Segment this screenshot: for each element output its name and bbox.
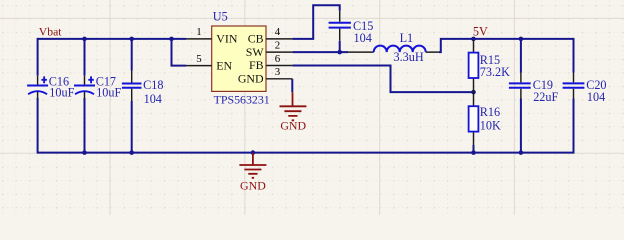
junction rail-GND <box>251 150 256 155</box>
junction Vbat-C18 <box>129 37 134 42</box>
svg-text:73.2K: 73.2K <box>480 65 510 79</box>
capacitor C15 <box>329 11 374 45</box>
svg-text:104: 104 <box>587 90 605 104</box>
svg-text:TPS563231: TPS563231 <box>214 93 270 107</box>
ground symbol under pin 3 <box>280 92 307 132</box>
svg-text:6: 6 <box>275 53 281 65</box>
wire CB to C15 top loop <box>292 5 339 39</box>
wire bottom GND rail <box>38 152 574 154</box>
capacitor C17 <box>74 75 121 100</box>
resistor R16 <box>469 92 501 145</box>
svg-text:10K: 10K <box>480 118 501 132</box>
wire EN branch <box>172 39 187 66</box>
svg-text:VIN: VIN <box>216 32 238 46</box>
wire C20 top drop <box>573 38 575 73</box>
svg-text:1: 1 <box>196 26 201 38</box>
svg-text:104: 104 <box>144 92 162 106</box>
wire FB net <box>292 66 473 93</box>
net label Vbat <box>39 25 62 38</box>
wire SW net <box>292 51 348 53</box>
svg-text:22uF: 22uF <box>533 90 558 104</box>
wire L1 to 5V rail <box>439 39 574 52</box>
junction rail-C19 <box>519 150 524 155</box>
junction 5V-R15 <box>471 37 476 42</box>
capacitor C16 <box>27 75 74 100</box>
svg-text:U5: U5 <box>213 10 228 24</box>
inductor L1 <box>348 31 439 64</box>
svg-text:GND: GND <box>238 72 264 86</box>
pin 4 CB <box>248 26 293 45</box>
svg-text:10uF: 10uF <box>96 86 121 100</box>
wire C17 top drop <box>84 39 86 76</box>
wire R16 bottom drop <box>473 145 475 153</box>
wire C20 bottom drop <box>573 99 575 154</box>
wire C19 top drop <box>520 39 522 73</box>
svg-text:104: 104 <box>354 31 372 45</box>
IC U5 TPS563231 <box>212 10 270 107</box>
svg-text:GND: GND <box>280 118 306 132</box>
junction 5V-C19 <box>519 37 524 42</box>
wire Vbat rail <box>38 38 186 40</box>
pin 5 EN <box>186 53 233 72</box>
junction Vbat-C17 <box>82 37 87 42</box>
junction SW-C15 <box>337 50 342 55</box>
svg-text:R16: R16 <box>480 105 500 119</box>
svg-text:EN: EN <box>216 58 232 72</box>
svg-text:2: 2 <box>275 39 280 51</box>
junction rail-R16 <box>471 150 476 155</box>
wire C16 bottom drop <box>37 98 39 154</box>
capacitor C20 <box>563 73 607 104</box>
pin 1 VIN <box>186 26 238 45</box>
svg-text:3.3uH: 3.3uH <box>394 50 424 64</box>
svg-text:GND: GND <box>240 179 266 193</box>
junction rail-C17 <box>82 150 87 155</box>
svg-text:5: 5 <box>196 53 202 65</box>
wire C19 bottom drop <box>520 99 522 153</box>
wire GND pin3 drop <box>291 79 293 93</box>
svg-text:C18: C18 <box>143 78 163 92</box>
ground symbol on bottom rail <box>239 153 266 193</box>
svg-text:L1: L1 <box>400 31 414 45</box>
junction FB-R15-R16 <box>471 90 476 95</box>
net label 5V <box>473 25 488 39</box>
pin 6 FB <box>249 53 292 72</box>
svg-text:SW: SW <box>246 45 265 59</box>
resistor R15 <box>469 40 511 92</box>
wire C15 bottom to SW net <box>339 41 341 52</box>
wire C17 bottom drop <box>84 98 86 153</box>
junction Vbat-EN <box>169 37 174 42</box>
svg-text:FB: FB <box>249 58 264 72</box>
wire C16 top drop <box>37 38 39 76</box>
capacitor C19 <box>509 73 559 104</box>
wire C18 bottom drop <box>131 101 133 153</box>
pin 2 SW <box>246 39 293 58</box>
wire C18 top drop <box>131 39 133 71</box>
svg-text:10uF: 10uF <box>49 86 74 100</box>
svg-text:4: 4 <box>275 26 281 38</box>
svg-text:3: 3 <box>275 66 281 78</box>
svg-text:5V: 5V <box>473 25 488 39</box>
svg-text:Vbat: Vbat <box>39 25 62 38</box>
svg-text:CB: CB <box>248 32 264 46</box>
capacitor C18 <box>122 71 164 106</box>
pin 3 GND <box>238 66 292 85</box>
junction rail-C18 <box>129 150 134 155</box>
